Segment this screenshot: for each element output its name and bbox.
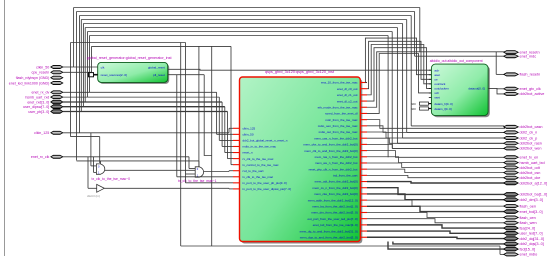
output port ddr2bot_rasn [504, 142, 518, 145]
svg-text:enet_txd[3..0]: enet_txd[3..0] [520, 210, 543, 214]
block qsys_ghrd_3c120 [240, 70, 363, 243]
svg-text:mem_addr_from_the_ddr2_bot[12.: mem_addr_from_the_ddr2_bot[12..0] [308, 198, 358, 202]
output port ddr2_dm[3..0] [504, 198, 518, 202]
svg-text:rcned_from_the_enet_dl: rcned_from_the_enet_dl [325, 112, 358, 116]
wire clkin_125 branch to mux0 [71, 136, 100, 138]
svg-text:ddr2bot_rasn: ddr2bot_rasn [520, 142, 542, 146]
output port enet_txd[3..0] [504, 210, 518, 214]
wire mux1 select drop [198, 46, 200, 166]
svg-text:eth_mode_from_the_tse_mac: eth_mode_from_the_tse_mac [318, 105, 358, 109]
wire rail r8 feeder port6 [230, 46, 232, 164]
svg-text:enet_rx_dv: enet_rx_dv [32, 91, 50, 95]
output port flash_resetn [504, 73, 518, 76]
wire global_reset out to altddio aclr [168, 68, 432, 71]
output port flash_wen [504, 221, 518, 224]
svg-text:tx_clk_to_the_tse_mac~1: tx_clk_to_the_tse_mac~1 [178, 179, 217, 183]
svg-text:dataout[0..0]: dataout[0..0] [468, 87, 485, 91]
wire group B feeders [216, 92, 218, 134]
svg-text:mdc_from_the_tse_mac: mdc_from_the_tse_mac [325, 118, 358, 122]
svg-text:enet_dl_c2_out: enet_dl_c2_out [337, 99, 358, 103]
wire dqs from bottom [393, 242, 505, 244]
svg-text:pll_reset: pll_reset [153, 73, 165, 77]
svg-text:enet_tx_en: enet_tx_en [520, 156, 539, 160]
svg-text:mem_dqs_to_and_from_the_ddr2_b: mem_dqs_to_and_from_the_ddr2_bot[3..0] [300, 235, 358, 239]
svg-text:flash_oen: flash_oen [520, 204, 536, 208]
output port ddr2bot_ba[1..0] [504, 193, 518, 197]
svg-text:enet_mdc: enet_mdc [520, 55, 537, 59]
port stubs qsys right [360, 83, 367, 238]
svg-text:ddr2_ck_n: ddr2_ck_n [520, 131, 538, 135]
svg-text:enet_rxd[3..0]: enet_rxd[3..0] [27, 100, 49, 104]
output port ddr2bot_active [504, 92, 518, 95]
output port fsa[24..0] [504, 226, 518, 230]
svg-text:ddr2bot_csn: ddr2bot_csn [520, 171, 541, 175]
svg-text:oe: oe [434, 78, 438, 82]
svg-text:enet_dl_c0_out: enet_dl_c0_out [337, 87, 358, 91]
svg-text:ddr2bot_active: ddr2bot_active [520, 92, 545, 96]
svg-text:tx_clk_to_the_tse_mac: tx_clk_to_the_tse_mac [243, 175, 274, 179]
constant b00 datain_l [411, 107, 431, 111]
port stubs qsys left [233, 128, 240, 189]
wire fsd from bottom [388, 242, 505, 250]
output port ddr2_dq[31..0] [504, 237, 518, 241]
svg-text:rx_clk_to_the_tse_mac: rx_clk_to_the_tse_mac [243, 157, 274, 161]
svg-text:reset_n: reset_n [243, 151, 253, 155]
wire mid vertical x211.7 [211, 46, 213, 246]
svg-text:ddr2_dm[3..0]: ddr2_dm[3..0] [520, 198, 543, 202]
svg-text:clkin_50: clkin_50 [243, 133, 254, 137]
output port enet_gtx_clk [504, 87, 518, 90]
wire mux0 select rail [77, 160, 199, 162]
wire dataout [488, 88, 505, 94]
svg-text:mem_ba_from_the_ddr2_bot[1..0]: mem_ba_from_the_ddr2_bot[1..0] [312, 205, 358, 209]
output port ddr2bot_casn [504, 125, 518, 128]
svg-text:mem_dq_to_and_from_the_ddr2_bo: mem_dq_to_and_from_the_ddr2_bot[31..0] [300, 229, 358, 233]
svg-text:mem_cs_n_from_the_ddr2_bot[0]: mem_cs_n_from_the_ddr2_bot[0] [312, 186, 357, 190]
output port ddr2bot_cke [504, 176, 518, 179]
wire mux1 out [204, 171, 229, 173]
wires qsys outputs [367, 120, 505, 129]
wire qsys right risers to altddio [365, 38, 431, 82]
junction mux1 select [198, 161, 200, 167]
svg-text:clkin_125: clkin_125 [243, 127, 256, 131]
svg-text:b00: b00 [411, 107, 416, 111]
wire mid vertical x185.5 to mux1 [185, 43, 187, 175]
wire feedback rail descents right [419, 8, 421, 52]
wire buffer input [87, 157, 89, 189]
svg-text:enet_gtx_clk: enet_gtx_clk [520, 87, 541, 91]
svg-text:cpu_resetn: cpu_resetn [32, 71, 50, 75]
svg-text:enet_rx_clk: enet_rx_clk [31, 155, 50, 159]
svg-text:txd_from_the_uart: txd_from_the_uart [333, 174, 358, 178]
svg-text:user_led[7..0]: user_led[7..0] [520, 232, 543, 236]
svg-text:flash_cen: flash_cen [520, 216, 536, 220]
wire riser to enet_resetn [367, 52, 505, 107]
block global_reset_generator [87, 56, 172, 84]
svg-text:fsa[24..0]: fsa[24..0] [520, 226, 536, 230]
output port ddr2bot_wen [504, 147, 518, 150]
svg-text:sset: sset [434, 96, 440, 100]
wire pll_reset out [168, 74, 205, 76]
output port ddr2_ck_n [504, 131, 518, 134]
svg-text:outclock: outclock [434, 82, 446, 86]
output port flash_cen [504, 216, 518, 219]
svg-text:enet_txd_from_the_tse_mac[3..0: enet_txd_from_the_tse_mac[3..0] [313, 223, 358, 227]
wire feedback rails top [74, 7, 420, 9]
svg-text:sclr: sclr [434, 91, 439, 95]
svg-text:ddr2bot_cke: ddr2bot_cke [520, 176, 541, 180]
svg-text:user_pb[3..0]: user_pb[3..0] [28, 110, 49, 114]
svg-text:enet_dl_c1_out: enet_dl_c1_out [337, 93, 358, 97]
input ticks altddio [429, 70, 432, 97]
svg-text:hsmb_uart_txd: hsmb_uart_txd [520, 161, 545, 165]
svg-text:global_reset: global_reset [148, 66, 165, 70]
svg-text:mdio_out_from_the_tse_mac: mdio_out_from_the_tse_mac [319, 130, 358, 134]
svg-text:ddr2_dq[31..0]: ddr2_dq[31..0] [520, 237, 545, 241]
wire mid vertical x180.7 to bottom rail [180, 43, 182, 247]
svg-text:outclocken: outclocken [434, 87, 449, 91]
wire port9 feeder [176, 75, 178, 177]
svg-text:ddr2bot_a[12..0]: ddr2bot_a[12..0] [520, 181, 548, 185]
wire pll_reset drop to x211 [204, 75, 212, 156]
output port fsd[15..0] [504, 247, 518, 251]
svg-text:hsmb_uart_rxd: hsmb_uart_rxd [25, 95, 49, 99]
output port flash_oen [504, 205, 518, 208]
wire frame left border [4, 0, 6, 256]
svg-text:qsys_ghrd_3c120:qsys_ghrd_3c12: qsys_ghrd_3c120:qsys_ghrd_3c120_inst [265, 70, 335, 74]
wire mux0 out [105, 169, 195, 171]
svg-text:reset_sources[2..0]: reset_sources[2..0] [101, 73, 127, 77]
svg-text:rxd_to_the_uart: rxd_to_the_uart [243, 169, 264, 173]
svg-text:in_port_to_the_user_pb_pio[3..: in_port_to_the_user_pb_pio[3..0] [243, 181, 287, 185]
svg-text:clkin_50: clkin_50 [36, 65, 49, 69]
svg-text:mem_odt_from_the_ddr2_bot[0]: mem_odt_from_the_ddr2_bot[0] [315, 180, 358, 184]
wire mux1 input a [188, 157, 190, 169]
svg-text:ddr2_bot_global_reset_n_reset_: ddr2_bot_global_reset_n_reset_n [243, 139, 288, 143]
svg-text:tx_clk_to_the_tse_mac~0: tx_clk_to_the_tse_mac~0 [92, 177, 131, 181]
svg-text:in_port_to_the_user_dipsw_pio[: in_port_to_the_user_dipsw_pio[7..0] [243, 187, 292, 191]
svg-text:datain_l[0..0]: datain_l[0..0] [434, 107, 451, 111]
svg-text:mem_clk_to_and_from_the_ddr2_b: mem_clk_to_and_from_the_ddr2_bot[0] [304, 149, 357, 153]
output port user_led[7..0] [504, 231, 518, 235]
svg-text:flash_rdybsyn (GND): flash_rdybsyn (GND) [16, 76, 50, 80]
wire buffer out [104, 187, 229, 189]
svg-text:clkin_125: clkin_125 [34, 131, 49, 135]
svg-text:ddr2bot_odt: ddr2bot_odt [520, 166, 541, 170]
wire port10 feeder [186, 182, 234, 184]
svg-text:fsd[15..0]: fsd[15..0] [520, 247, 536, 251]
svg-text:mem_dm_from_the_ddr2_bot[3..0]: mem_dm_from_the_ddr2_bot[3..0] [311, 211, 357, 215]
mux tx_clk_to_the_tse_mac~1 [178, 167, 217, 183]
svg-text:ddr2bot_wen: ddr2bot_wen [520, 147, 542, 151]
svg-text:mdio_oen_from_the_tse_mac: mdio_oen_from_the_tse_mac [318, 124, 358, 128]
svg-text:b00: b00 [411, 102, 416, 106]
svg-text:ena_10_from_the_tse_mac: ena_10_from_the_tse_mac [321, 81, 358, 85]
svg-text:altddio_out:altddio_out_compon: altddio_out:altddio_out_component [430, 59, 483, 63]
wire branch flash_resetn [495, 52, 497, 75]
output port hsmb_uart_txd [504, 161, 518, 164]
buffer clk_ctrl [87, 184, 104, 198]
output port ddr2_dqs[3..0] [504, 242, 518, 246]
svg-text:ddr2_ck_p: ddr2_ck_p [520, 136, 538, 140]
svg-text:mdio_in_to_the_tse_mac: mdio_in_to_the_tse_mac [243, 145, 277, 149]
wire clkin_125 feeder [228, 128, 230, 133]
svg-text:aclr: aclr [434, 68, 439, 72]
output port ddr2bot_odt [504, 166, 518, 169]
svg-text:ddr2bot_ba[1..0]: ddr2bot_ba[1..0] [520, 193, 548, 197]
svg-text:ddr2bot_casn: ddr2bot_casn [520, 125, 543, 129]
svg-text:ddr2_dqs[3..0]: ddr2_dqs[3..0] [520, 242, 544, 246]
svg-text:out_port_from_the_user_led_pio: out_port_from_the_user_led_pio[7..0] [307, 217, 357, 221]
svg-text:clk: clk [101, 66, 105, 70]
output port ddr2bot_csn [504, 171, 518, 174]
svg-text:tx_control_to_the_tse_mac: tx_control_to_the_tse_mac [243, 163, 280, 167]
svg-text:global_reset_generator:global_: global_reset_generator:global_reset_gene… [87, 56, 172, 60]
input stub reset_sources [89, 73, 94, 77]
block altddio_out [430, 59, 490, 118]
wire left vertical bundle [73, 8, 75, 68]
svg-text:datain_h[0..0]: datain_h[0..0] [434, 102, 452, 106]
svg-text:mem_we_n_from_the_ddr2_bot: mem_we_n_from_the_ddr2_bot [315, 161, 358, 165]
svg-text:user_dipsw[7..0]: user_dipsw[7..0] [23, 105, 49, 109]
output port enet_resetn [504, 51, 518, 54]
output port ddr2_ck_p [504, 136, 518, 139]
wire clk into block [74, 66, 98, 68]
svg-text:flash_resetn: flash_resetn [520, 73, 541, 77]
svg-text:aset: aset [434, 73, 440, 77]
wire bottom rail y246 [181, 245, 500, 247]
wire casn converge [504, 126, 505, 127]
output port enet_mdio [504, 253, 518, 256]
constant b00 datain_h [411, 102, 431, 106]
mux tx_clk_to_the_tse_mac~0 [92, 164, 131, 181]
svg-text:enet_mdio: enet_mdio [520, 253, 538, 257]
output port enet_tx_en [504, 156, 518, 159]
svg-text:reset_phy_clk_n_from_the_ddr2_: reset_phy_clk_n_from_the_ddr2_bot [309, 167, 358, 171]
svg-text:mem_cas_n_from_the_ddr2_bot: mem_cas_n_from_the_ddr2_bot [314, 136, 358, 140]
svg-text:clkctrl (in): clkctrl (in) [87, 194, 100, 198]
output port enet_mdc [504, 55, 518, 58]
svg-text:flash_wen: flash_wen [520, 221, 537, 225]
wire enet_rx_clk to mux0 [93, 157, 95, 173]
svg-text:mem_cke_to_and_from_the_ddr2_b: mem_cke_to_and_from_the_ddr2_bot[0] [303, 143, 357, 147]
svg-text:mem_cke_from_the_ddr2_bot[0]: mem_cke_from_the_ddr2_bot[0] [314, 192, 358, 196]
output port ddr2bot_a[12..0] [504, 181, 518, 185]
wire riser sclr [367, 54, 431, 114]
svg-text:enet_led_link1000 (GND): enet_led_link1000 (GND) [9, 81, 50, 85]
svg-text:mem_ras_n_from_the_ddr2_bot: mem_ras_n_from_the_ddr2_bot [315, 155, 358, 159]
